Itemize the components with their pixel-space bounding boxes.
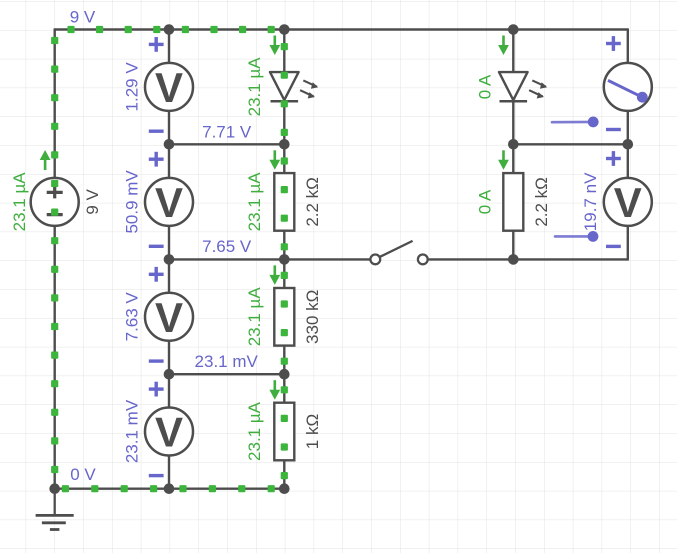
minus terminal V5 (606, 245, 621, 248)
label V4 reading 23.1 mV (122, 399, 141, 463)
label net voltage 9 V (70, 7, 96, 26)
wire analog meter M1 bottom lead (627, 111, 629, 144)
svg-text:V: V (155, 294, 183, 341)
node top rail / V1+ (164, 24, 175, 35)
wire voltmeter V2 bottom lead (168, 226, 170, 260)
LED D1 (270, 72, 318, 101)
wire LED D2 cathode lead (512, 101, 514, 144)
wire voltmeter V3 bottom lead (168, 341, 170, 374)
wire LED D1 anode lead (283, 30, 285, 73)
resistor R4 2.2 kΩ (503, 173, 523, 231)
label R4 current 0 A (476, 189, 495, 214)
probe pointer at analog meter minus terminal (552, 117, 599, 128)
current arrow resistor R2 (269, 265, 280, 285)
svg-text:23.1 mV: 23.1 mV (122, 399, 141, 463)
wire resistor R3 bottom lead (283, 460, 285, 488)
svg-text:9 V: 9 V (70, 7, 96, 26)
label battery current 23.1 uA (10, 172, 29, 232)
svg-text:7.63 V: 7.63 V (122, 292, 141, 342)
minus terminal V1 (149, 129, 164, 132)
label R3 value 1 kΩ (303, 414, 322, 449)
wire resistor R2 top lead (283, 259, 285, 288)
node top rail / LED D2 anode (508, 24, 519, 35)
current dots on left branch (51, 37, 58, 473)
wire resistor R3 top lead (283, 374, 285, 403)
current arrow resistor R1 (269, 150, 280, 170)
node bottom rail / V4 minus (164, 483, 175, 494)
current arrow LED D2 (498, 36, 509, 56)
wire node row (E to F at R1) (513, 143, 628, 145)
svg-text:V: V (614, 179, 642, 226)
label battery value 9 V (83, 188, 102, 214)
svg-text:0 A: 0 A (476, 74, 495, 99)
svg-text:19.7 nV: 19.7 nV (581, 172, 600, 231)
plus terminal V4 (149, 382, 164, 397)
LED D2 (499, 72, 547, 101)
label V2 reading 50.9 mV (122, 170, 141, 234)
voltmeter V5 (604, 178, 652, 226)
label R1 value 2.2 kΩ (303, 177, 322, 227)
label R3 current 23.1 uA (245, 401, 264, 461)
plus terminal V3 (149, 267, 164, 282)
wire switch left lead (284, 258, 370, 260)
node LED D2 cathode / R4 / meter (508, 139, 519, 150)
svg-text:23.1 mV: 23.1 mV (195, 352, 259, 371)
minus terminal V3 (149, 359, 164, 362)
label net voltage 7.71 V (202, 122, 252, 141)
wire bottom rail (ground node to 1k resistor bottom) (54, 488, 285, 490)
svg-text:330 kΩ: 330 kΩ (303, 290, 322, 344)
wire voltmeter V4 bottom lead (168, 456, 170, 489)
svg-text:9 V: 9 V (83, 188, 102, 214)
wire switch right lead (427, 258, 513, 260)
probe pointer at voltmeter V5 minus terminal (555, 231, 598, 242)
voltage source B1 9V (battery) (31, 178, 79, 226)
svg-text:23.1 µA: 23.1 µA (245, 57, 264, 117)
svg-text:23.1 µA: 23.1 µA (245, 401, 264, 461)
current dots on bottom rail (62, 485, 275, 492)
node 23.1mV junction C (279, 369, 290, 380)
label V3 reading 7.63 V (122, 292, 141, 342)
wire voltmeter V1 bottom lead (168, 111, 170, 144)
node 7.71V junction B (164, 139, 175, 150)
svg-text:7.71 V: 7.71 V (202, 122, 252, 141)
minus terminal V4 (149, 474, 164, 477)
wire resistor R4 bottom lead (512, 231, 514, 260)
label R2 value 330 kΩ (303, 290, 322, 344)
analog meter M1 (galvanometer) (604, 63, 652, 111)
resistor R1 2.2 kΩ (274, 173, 294, 231)
wire resistor R1 bottom lead (283, 231, 285, 260)
wire top rail from top-left corner to top-right corner (55, 28, 628, 30)
label LED D2 current 0 A (476, 74, 495, 99)
node ground junction (49, 483, 60, 494)
current dots on middle column (281, 43, 288, 479)
wire resistor R4 top lead (512, 144, 514, 173)
svg-text:V: V (155, 179, 183, 226)
plus terminal V2 (149, 152, 164, 167)
current arrow battery (up) (40, 150, 51, 170)
label net voltage 7.65 V (202, 237, 252, 256)
resistor R2 330 kΩ (274, 288, 294, 346)
current arrow LED D1 (269, 36, 280, 56)
label net voltage 23.1 mV (195, 352, 259, 371)
switch SW1 (open SPST) (370, 241, 427, 264)
plus terminal V1 (149, 37, 164, 52)
svg-text:50.9 mV: 50.9 mV (122, 170, 141, 234)
wire analog meter M1 top lead (627, 28, 629, 63)
wire voltmeter V4 top lead (168, 374, 170, 407)
voltmeter V4 (145, 408, 193, 456)
wire resistor R2 bottom lead (283, 346, 285, 375)
svg-text:1.29 V: 1.29 V (122, 62, 141, 112)
node 23.1mV junction B (164, 369, 175, 380)
wire LED D2 anode lead (512, 30, 514, 73)
plus terminal V5 (606, 151, 621, 166)
node 7.65V junction C (279, 254, 290, 265)
wire node row 7.65V (B to C) (169, 258, 284, 260)
node top rail / LED D1 anode (279, 24, 290, 35)
wire voltmeter V1 top lead (168, 30, 170, 63)
label net voltage 0 V (70, 465, 96, 484)
svg-text:23.1 µA: 23.1 µA (10, 172, 29, 232)
svg-text:0 V: 0 V (70, 465, 96, 484)
label R2 current 23.1 uA (245, 287, 264, 347)
svg-text:2.2 kΩ: 2.2 kΩ (303, 177, 322, 227)
svg-text:V: V (155, 64, 183, 111)
node bottom rail / R3 bottom (279, 483, 290, 494)
wire bottom of right meter branch (E to F at R2) (513, 258, 629, 260)
current arrow resistor R4 (498, 150, 509, 170)
wire left branch lower (battery bottom down to ground node) (54, 226, 56, 489)
resistor R3 1 kΩ (274, 403, 294, 461)
minus terminal M1 (606, 128, 621, 131)
node 7.71V junction C (279, 139, 290, 150)
wire left branch upper (corner down to battery top) (54, 28, 56, 178)
label R4 value 2.2 kΩ (532, 177, 551, 227)
svg-text:7.65 V: 7.65 V (202, 237, 252, 256)
svg-text:V: V (155, 409, 183, 456)
label V5 reading 19.7 nV (581, 172, 600, 231)
voltmeter V2 (145, 178, 193, 226)
svg-text:23.1 µA: 23.1 µA (245, 172, 264, 232)
svg-text:1 kΩ: 1 kΩ (303, 414, 322, 449)
node switch right / E column (508, 254, 519, 265)
plus terminal M1 (606, 36, 621, 51)
wire voltmeter V5 bottom lead (627, 226, 629, 260)
wire voltmeter V2 top lead (168, 144, 170, 178)
minus terminal V2 (149, 245, 164, 248)
ground symbol (36, 489, 74, 530)
node 7.65V junction B (164, 254, 175, 265)
label R1 current 23.1 uA (245, 172, 264, 232)
current arrow resistor R3 (269, 380, 280, 400)
wire voltmeter V3 top lead (168, 259, 170, 292)
svg-text:23.1 µA: 23.1 µA (245, 287, 264, 347)
wire node row 23.1mV (B to C) (169, 373, 284, 375)
svg-text:2.2 kΩ: 2.2 kΩ (532, 177, 551, 227)
label V1 reading 1.29 V (122, 62, 141, 112)
voltmeter V3 (145, 293, 193, 341)
voltmeter V1 (145, 63, 193, 111)
node right meters junction (623, 139, 634, 150)
wire resistor R1 top lead (283, 144, 285, 173)
wire node row 7.71V (B to C) (169, 143, 284, 145)
current dots on top rail (67, 26, 274, 33)
label LED D1 current 23.1 uA (245, 57, 264, 117)
wire LED D1 cathode lead (283, 101, 285, 144)
svg-text:0 A: 0 A (476, 189, 495, 214)
wire voltmeter V5 top lead (627, 144, 629, 178)
